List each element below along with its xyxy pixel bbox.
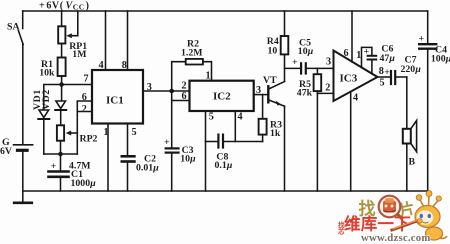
capacitor C8 0.1u <box>206 141 218 143</box>
svg-text:1000µ: 1000µ <box>71 178 97 189</box>
node +6V(Vcc) label <box>39 0 90 11</box>
resistor R1 <box>58 58 66 77</box>
wire IC1 pin 3 to junction <box>143 90 172 92</box>
wire junction to IC2 pin 2 <box>172 90 190 92</box>
svg-text:SA: SA <box>7 22 20 33</box>
svg-text:VT: VT <box>263 75 277 86</box>
op-amp IC3 (LM386) triangle <box>334 51 378 102</box>
svg-text:10µ: 10µ <box>180 154 196 165</box>
svg-text:1.2M: 1.2M <box>181 48 203 59</box>
wire IC2 pin 5 to ground <box>205 111 207 191</box>
wire pins 2/6 bracket of IC1 <box>77 101 92 154</box>
svg-text:6: 6 <box>182 91 187 102</box>
wire IC2 pin 3 to base <box>254 94 268 96</box>
wire bottom ground bus <box>23 190 428 192</box>
svg-text:B: B <box>409 157 416 168</box>
svg-text:6: 6 <box>344 48 349 59</box>
capacitor C4 100u <box>427 11 429 44</box>
capacitor C3 10u <box>166 147 179 149</box>
wire IC3 pin 4 to ground <box>350 92 352 191</box>
svg-text:1k: 1k <box>270 128 281 139</box>
wire battery to bottom bus <box>22 152 24 192</box>
svg-text:IC1: IC1 <box>106 95 124 107</box>
diode VD1 <box>39 110 49 118</box>
node junction R1/pin7 <box>59 82 64 87</box>
battery G 6V <box>14 144 33 146</box>
wire IC1 pin 8 <box>127 11 129 70</box>
wire IC1 pin 1 to ground <box>107 124 109 192</box>
wire IC2 pin 4 <box>234 111 236 142</box>
svg-text:6V: 6V <box>0 146 12 157</box>
resistor R5 47k <box>316 68 318 74</box>
wire IC1 pin 4 <box>105 11 107 70</box>
resistor R3 1k <box>262 135 264 142</box>
svg-text:+: + <box>164 137 170 148</box>
potentiometer RP1 <box>61 11 63 26</box>
svg-text:8: 8 <box>122 60 127 71</box>
op-amp IC2 (555) box <box>190 81 254 111</box>
wire top +6V bus <box>23 10 428 12</box>
svg-text:4: 4 <box>238 112 243 123</box>
svg-text:3: 3 <box>147 82 152 93</box>
diode VD2 <box>61 85 63 101</box>
wire IC3 pin 6 to +V <box>351 11 353 62</box>
wire IC1 pin 5 <box>127 124 129 156</box>
svg-text:+: + <box>364 47 370 58</box>
svg-text:100µ: 100µ <box>431 53 450 64</box>
watermark 维库一下 logo <box>338 191 447 244</box>
svg-text:5: 5 <box>209 112 214 123</box>
svg-text:0.01µ: 0.01µ <box>136 163 159 174</box>
svg-text:2: 2 <box>182 81 187 92</box>
svg-text:8: 8 <box>379 66 384 77</box>
svg-text:维库一下: 维库一下 <box>344 214 411 234</box>
svg-text:1: 1 <box>104 127 109 138</box>
wire SA to battery <box>22 45 24 145</box>
capacitor C1 1000u <box>60 154 62 171</box>
svg-text:www.dzsc.com: www.dzsc.com <box>361 232 431 244</box>
node junction dot C1 <box>58 152 63 157</box>
svg-text:10k: 10k <box>39 68 55 79</box>
capacitor C2 0.01u <box>122 155 135 158</box>
svg-text:+: + <box>384 67 390 78</box>
node junction pin3 <box>169 89 174 94</box>
svg-text:2: 2 <box>82 104 87 115</box>
svg-text:VD2: VD2 <box>41 89 52 110</box>
svg-text:+: + <box>292 57 298 68</box>
svg-text:47k: 47k <box>297 87 313 98</box>
switch SA <box>22 11 24 29</box>
svg-text:0.1µ: 0.1µ <box>215 160 233 171</box>
op-amp IC1 (555) box <box>92 70 143 124</box>
svg-text:+: + <box>51 161 57 172</box>
transistor VT <box>267 86 269 102</box>
svg-text:2: 2 <box>325 82 330 93</box>
svg-text:7: 7 <box>84 74 89 85</box>
ground <box>22 191 24 203</box>
svg-text:4: 4 <box>353 93 358 104</box>
svg-text:IC2: IC2 <box>213 91 231 103</box>
wire bottom junction (C1 node) <box>44 153 78 155</box>
svg-text:10: 10 <box>268 46 278 57</box>
svg-text:3: 3 <box>326 57 331 68</box>
svg-text:10µ: 10µ <box>298 46 314 57</box>
svg-text:5: 5 <box>380 78 385 89</box>
svg-text:47µ: 47µ <box>380 53 396 64</box>
resistor R2 feedback loop <box>172 62 186 91</box>
svg-text:220µ: 220µ <box>401 64 422 75</box>
wire junction to IC1 pin 7 <box>62 84 92 86</box>
capacitor C6 47u (pins 1-8) <box>362 47 372 67</box>
svg-text:5: 5 <box>132 127 137 138</box>
svg-text:6: 6 <box>82 92 87 103</box>
wire junction left to VD1 <box>44 85 62 110</box>
wire R5 to IC3 pin 2 and ground <box>317 92 333 94</box>
capacitor C5 10u <box>285 67 301 69</box>
svg-text:+: + <box>419 34 425 45</box>
svg-text:1: 1 <box>356 50 361 61</box>
svg-text:1M: 1M <box>72 49 86 60</box>
resistor R4 10 <box>284 11 286 36</box>
wire emitter to ground <box>284 106 286 191</box>
svg-text:IC3: IC3 <box>340 73 358 85</box>
speaker B <box>406 77 408 129</box>
potentiometer RP2 <box>57 125 64 140</box>
svg-text:RP2: RP2 <box>80 134 98 145</box>
svg-text:3: 3 <box>256 85 261 96</box>
capacitor C7 220u output <box>378 76 391 78</box>
wire junction down / pin 6 tap <box>171 91 173 147</box>
svg-text:4: 4 <box>99 60 104 71</box>
